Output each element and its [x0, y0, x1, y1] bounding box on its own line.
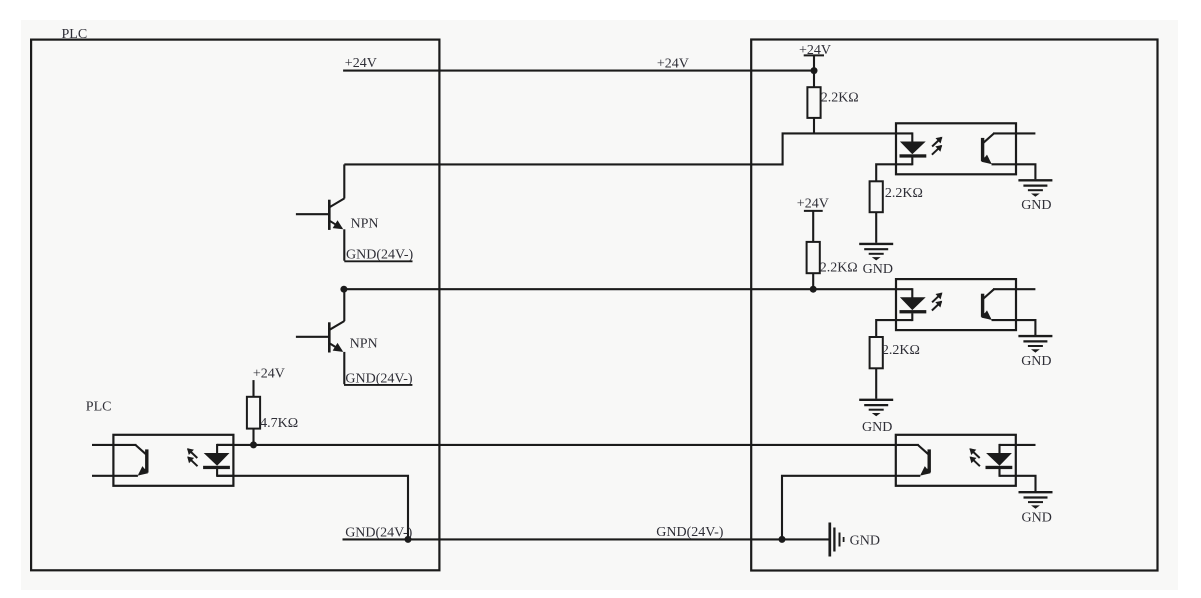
svg-text:+24V: +24V [657, 57, 689, 72]
right device enclosure box [751, 40, 1157, 571]
wire R1 to node [813, 69, 815, 87]
optocoupler U4 LED [217, 444, 233, 446]
ground GND5 [1019, 491, 1053, 493]
svg-text:2.2KΩ: 2.2KΩ [821, 91, 859, 106]
wire GND rail up to U3 emitter [782, 476, 897, 540]
optocoupler U2 LED [896, 288, 912, 290]
wire U2 collector stub [1016, 288, 1035, 290]
optocoupler U3 body [896, 435, 1016, 486]
svg-text:NPN: NPN [351, 216, 379, 231]
svg-text:GND(24V-): GND(24V-) [345, 526, 412, 541]
wire U1 collector stub [1016, 132, 1035, 134]
wire U4 left stub top [92, 444, 113, 446]
wire R2 to GND2 [875, 212, 877, 243]
svg-text:GND: GND [863, 262, 893, 277]
svg-text:GND: GND [1022, 510, 1052, 525]
svg-text:2.2KΩ: 2.2KΩ [820, 261, 858, 276]
optocoupler U3 LED [1000, 444, 1016, 446]
svg-text:PLC: PLC [86, 400, 112, 415]
svg-text:+24V: +24V [253, 367, 285, 382]
transistor Q2 base bar [328, 322, 331, 352]
resistor R3 [807, 242, 820, 273]
svg-text:2.2KΩ: 2.2KΩ [882, 343, 920, 358]
wire U2 cathode to R4 [876, 320, 897, 337]
wire +24V rail [343, 70, 814, 72]
underline GND(24V-) Q2 [344, 384, 412, 386]
transistor Q1 base bar [328, 200, 331, 230]
svg-text:GND(24V-): GND(24V-) [656, 525, 723, 540]
optocoupler U1 phototransistor [981, 138, 984, 161]
optocoupler U2 light arrows [932, 293, 942, 302]
wire +24V to R5 [252, 380, 254, 397]
svg-text:+24V: +24V [797, 197, 829, 212]
resistor R4 [870, 337, 883, 368]
optocoupler U1 body [896, 123, 1016, 174]
resistor R5 [247, 397, 260, 429]
wire U4 left stub bottom [92, 475, 113, 477]
wire R4 to GND4 [875, 368, 877, 398]
svg-text:2.2KΩ: 2.2KΩ [885, 186, 923, 201]
wire U1 cathode to R2 [876, 164, 897, 181]
ground GND6 bars [828, 523, 831, 557]
transistor Q2 collector [330, 321, 345, 330]
optocoupler U2 body [896, 279, 1016, 330]
transistor Q1 emitter [330, 221, 342, 229]
optocoupler U2 phototransistor [981, 294, 984, 317]
node junction Q2 collector [340, 286, 347, 293]
wire U2 emitter to GND3 [1016, 320, 1035, 335]
wire U3 anode stub [1016, 444, 1036, 446]
wire GND(24V-) rail [343, 538, 829, 540]
optocoupler U4 phototransistor [145, 449, 148, 472]
resistor R2 [870, 181, 883, 212]
wire tick to R3 [812, 211, 814, 242]
wire U1 emitter to GND1 [1016, 164, 1035, 179]
node junction ch2/R3 [810, 286, 817, 293]
wire Q2 collector to U2 [344, 288, 897, 290]
svg-text:NPN: NPN [350, 337, 378, 352]
wire +24V tick to rail [813, 55, 815, 70]
ground GND1 [1018, 179, 1052, 181]
node junction GND rail right [779, 536, 786, 543]
optocoupler U1 light arrows [932, 138, 942, 147]
svg-text:PLC: PLC [62, 27, 88, 42]
wire Q1 collector to U1 [344, 133, 897, 164]
ground GND2 [859, 243, 893, 245]
svg-text:+24V: +24V [345, 56, 377, 71]
svg-text:GND(24V-): GND(24V-) [346, 248, 413, 263]
svg-text:4.7KΩ: 4.7KΩ [260, 416, 298, 431]
resistor R1 [807, 87, 820, 118]
svg-text:GND: GND [850, 534, 880, 549]
node junction +24V/R1 [811, 67, 818, 74]
wire U4 cathode to GND rail [217, 476, 408, 540]
optocoupler U3 light arrows [970, 449, 980, 458]
underline GND(24V-) Q1 [344, 260, 412, 262]
net tick +24V top [804, 54, 824, 56]
ground GND3 [1018, 335, 1052, 337]
wire U3 cathode to GND5 [1016, 476, 1036, 491]
ground GND4 [859, 399, 893, 401]
transistor Q2 emitter [330, 343, 342, 351]
svg-text:GND: GND [1021, 198, 1051, 213]
optocoupler U3 phototransistor [928, 449, 931, 472]
net tick +24V mid [804, 210, 823, 212]
node junction U4 cathode/GND rail [405, 536, 412, 543]
transistor Q2 base wire [296, 336, 329, 338]
svg-text:GND: GND [1021, 354, 1051, 369]
optocoupler U4 light arrows [188, 449, 198, 458]
wire R1 bottom [813, 118, 815, 134]
wire R5 to node [252, 429, 254, 445]
transistor Q1 base wire [296, 213, 329, 215]
wire PLC output to U3 [217, 444, 896, 446]
svg-text:GND: GND [862, 420, 892, 435]
optocoupler U4 body [113, 435, 233, 486]
PLC enclosure box [31, 40, 439, 571]
wire R3 bottom [812, 273, 814, 289]
node junction R5/output [250, 441, 257, 448]
optocoupler U1 LED [896, 132, 912, 134]
transistor Q1 collector [330, 198, 345, 207]
